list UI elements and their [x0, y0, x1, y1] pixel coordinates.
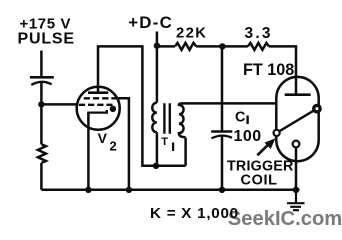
capacitor C1 curved plate [212, 136, 233, 139]
wire cathode to ground bus [87, 113, 90, 190]
svg-text:+D-C: +D-C [128, 13, 173, 32]
node FT108 ground dot [293, 187, 299, 193]
wire T1 primary bottom lead [156, 132, 159, 166]
transformer T1 secondary winding [179, 103, 186, 137]
wire C1 bottom lead [221, 136, 224, 190]
trigger arrow shaft [257, 145, 268, 156]
wire T1 secondary bottom lead [156, 138, 186, 166]
wire 22K to 3.3 [196, 45, 248, 48]
wire D-C to R 22K [157, 45, 175, 48]
transformer T1 primary winding [152, 103, 157, 132]
wire grid input [41, 103, 77, 106]
label C1 [235, 110, 246, 126]
node T1 bottom junction dot [153, 163, 159, 169]
wire D-C input lead [156, 32, 159, 103]
label +175V PULSE [18, 15, 75, 47]
label 22K [176, 26, 207, 42]
trigger arrow head [266, 139, 275, 148]
transformer T1 core [164, 103, 169, 134]
svg-text:3.3: 3.3 [245, 25, 273, 42]
wire ground bus bottom [41, 189, 299, 192]
node grid junction dot [38, 101, 44, 107]
node 22K-3.3 junction dot [219, 43, 225, 49]
ground symbol [287, 190, 305, 210]
label COIL [241, 172, 278, 188]
svg-text:22K: 22K [176, 26, 207, 42]
label FT 108 [243, 61, 294, 79]
svg-text:C: C [235, 110, 246, 126]
svg-text:FT 108: FT 108 [243, 61, 294, 79]
capacitor C input top plate [30, 76, 54, 79]
label C1 subscript bar [246, 116, 248, 125]
tube FT108 plate bar [285, 93, 311, 96]
wire left rail lower [40, 163, 43, 190]
label T1 [161, 136, 168, 148]
label V2 [98, 130, 117, 153]
tube FT108 envelope [276, 77, 318, 161]
node grid1 ground dot [126, 187, 132, 193]
resistor 3.3 [248, 43, 269, 50]
resistor grid leak (vertical) [38, 144, 46, 163]
node cathode ground dot [85, 187, 91, 193]
svg-text:100: 100 [234, 128, 262, 145]
wire 3.3 to FT108 plate [269, 46, 296, 94]
node D-C junction dot [154, 43, 160, 49]
wire cap to grid node [40, 82, 43, 104]
svg-text:T: T [161, 136, 168, 148]
trigger coil arm right loop circle [314, 105, 320, 111]
svg-text:K = X 1,000: K = X 1,000 [150, 205, 239, 222]
watermark SeekIC.com [228, 208, 342, 230]
wire pulse input lead [40, 51, 43, 77]
svg-text:V: V [98, 130, 108, 146]
tube FT108 cathode circle [293, 141, 300, 148]
wire grid1 right exit to ground bus [117, 98, 129, 190]
tube V2 envelope [77, 87, 120, 130]
tube V2 plate bar [88, 91, 108, 94]
tube V2 gas dot [110, 106, 116, 112]
tube V2 grid row 2 [79, 104, 113, 106]
label 100 [234, 128, 262, 145]
wire T1 secondary to FT108 [181, 102, 276, 105]
wire C1 top lead [221, 46, 224, 130]
label K = X 1,000 [150, 205, 239, 222]
wire plate to T1 bottom [98, 46, 156, 165]
tube V2 cathode [88, 110, 106, 121]
label TRIGGER [227, 158, 294, 174]
node C1 ground dot [219, 187, 225, 193]
label +D-C [128, 13, 173, 32]
resistor 22K [175, 43, 196, 50]
label 3.3 [245, 25, 273, 42]
wire left rail upper [40, 104, 43, 144]
svg-text:PULSE: PULSE [18, 31, 75, 48]
capacitor C input curved plate [31, 82, 51, 85]
trigger coil arm diagonal [279, 110, 314, 131]
trigger coil arm left terminal circle [274, 130, 280, 136]
label T1 subscript bar [172, 143, 174, 152]
capacitor C1 top plate [211, 130, 232, 133]
tube V2 grid row 1 [84, 97, 117, 99]
svg-text:2: 2 [110, 139, 117, 154]
wire FT108 cathode lead [295, 147, 298, 189]
svg-text:COIL: COIL [241, 172, 278, 188]
svg-text:SeekIC.com: SeekIC.com [228, 208, 342, 230]
